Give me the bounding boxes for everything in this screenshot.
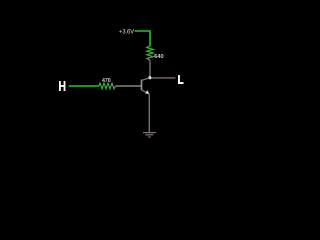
- svg-text:+3.6V: +3.6V: [119, 28, 135, 35]
- svg-text:640: 640: [154, 54, 163, 60]
- svg-text:470: 470: [102, 78, 111, 84]
